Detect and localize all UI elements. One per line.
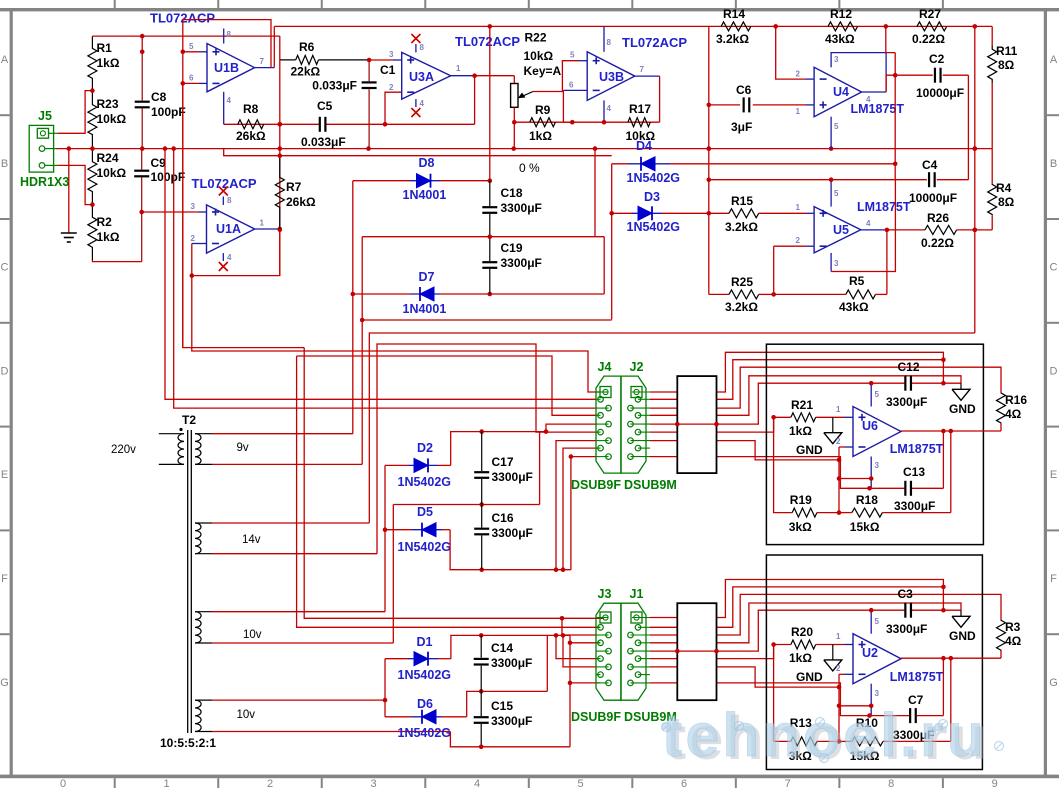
svg-text:R3: R3 — [1005, 620, 1021, 634]
svg-text:C19: C19 — [501, 241, 523, 255]
svg-text:3300μF: 3300μF — [894, 499, 935, 513]
svg-text:0.22Ω: 0.22Ω — [912, 32, 945, 46]
svg-text:1: 1 — [260, 219, 265, 228]
svg-text:1: 1 — [836, 632, 841, 641]
svg-text:8: 8 — [888, 778, 894, 788]
wire D1 cathode up to C14 line — [451, 635, 570, 658]
wire crossing lower ribbon block — [677, 650, 716, 652]
U1A pin8 X — [222, 197, 224, 205]
resistor R4 8ohm — [991, 149, 993, 184]
svg-text:A: A — [1050, 54, 1058, 66]
U4 pin3 loop — [831, 53, 886, 92]
svg-text:R12: R12 — [830, 7, 852, 21]
wire R10 right up to output — [950, 658, 952, 741]
wire x=296.6 J3 pin1 feed — [297, 356, 600, 627]
capacitor C18 3300uF — [489, 181, 491, 206]
svg-text:C17: C17 — [492, 455, 514, 469]
bottom rail y=746.8 — [450, 732, 570, 747]
resistor R27 0.22 — [917, 22, 947, 31]
wire U3A output to pot R22 — [475, 75, 515, 77]
svg-text:R6: R6 — [299, 40, 315, 54]
svg-text:0: 0 — [60, 778, 66, 788]
svg-text:C12: C12 — [898, 360, 920, 374]
svg-text:C: C — [1050, 262, 1058, 274]
wire rail1 to J4 pin1 via x=165 — [165, 149, 596, 400]
resistor R14 3.2k — [721, 22, 751, 31]
capacitor C14 3300uF — [480, 635, 482, 657]
svg-text:10kΩ: 10kΩ — [97, 166, 127, 180]
svg-text:14v: 14v — [242, 534, 261, 546]
resistor R10 15k — [839, 740, 852, 742]
svg-text:D6: D6 — [417, 697, 433, 711]
capacitor C5 0.033uF — [319, 117, 321, 132]
wire braid feed J3 pin5 — [554, 633, 559, 638]
svg-text:2: 2 — [267, 778, 273, 788]
svg-text:22kΩ: 22kΩ — [291, 65, 321, 79]
U3A pin4 X — [415, 99, 417, 107]
U1A pin1 output — [255, 228, 280, 230]
U5 pin1 input line — [709, 212, 729, 214]
U1B pin5 input — [183, 51, 199, 53]
svg-text:U1A: U1A — [216, 222, 241, 236]
svg-text:4: 4 — [607, 104, 612, 113]
diode D7 1N4001 — [353, 293, 410, 295]
diode D5 1N5402G — [385, 529, 412, 531]
svg-text:R17: R17 — [629, 102, 651, 116]
svg-text:GND: GND — [796, 443, 823, 457]
wire J1 sq to U2 box C3 node — [650, 580, 943, 618]
wire J5 pin3 to R24/R2 junction — [58, 165, 92, 204]
svg-text:8Ω: 8Ω — [998, 58, 1015, 72]
resistor R12 43k — [828, 22, 858, 31]
svg-text:2: 2 — [796, 70, 801, 79]
svg-text:D3: D3 — [644, 190, 660, 204]
svg-text:U3B: U3B — [599, 70, 624, 84]
ground symbol at J5 — [68, 149, 70, 233]
U1B pin7 output stub — [255, 67, 275, 69]
U1B pin8 stub — [223, 29, 225, 44]
GND symbol at U6 pin1 — [832, 417, 834, 432]
potentiometer R22 10k — [513, 76, 515, 84]
svg-text:3300μF: 3300μF — [886, 395, 927, 409]
svg-text:1N5402G: 1N5402G — [398, 540, 452, 554]
svg-text:8Ω: 8Ω — [998, 195, 1015, 209]
U4 pin2 input from R14/R12 node — [776, 26, 806, 79]
T2 secondary 14v — [195, 523, 201, 554]
center wire y=236.7 — [362, 236, 604, 238]
wire D2/D5 left column x=385 — [384, 465, 386, 611]
svg-text:3: 3 — [834, 55, 839, 64]
svg-text:TL072ACP: TL072ACP — [622, 35, 687, 50]
wire C5 right to U3A pin2 drop — [385, 92, 402, 124]
wire 10v1 bottom up to C16 top line — [392, 505, 394, 644]
svg-text:10v: 10v — [237, 709, 256, 721]
resistor R6 22k — [280, 59, 296, 61]
U6 output line — [901, 430, 1001, 432]
wire 9v bottom up to y=320 rail — [361, 237, 363, 465]
wire C16 mid line up to C17 rail — [539, 432, 541, 505]
svg-text:C16: C16 — [492, 511, 514, 525]
svg-text:DSUB9M: DSUB9M — [624, 478, 677, 492]
svg-text:U5: U5 — [833, 223, 849, 237]
capacitor C15 3300uF — [480, 691, 482, 716]
svg-text:C18: C18 — [501, 186, 523, 200]
svg-text:3: 3 — [834, 259, 839, 268]
14v top lead wire — [195, 522, 212, 524]
svg-text:8: 8 — [227, 30, 232, 39]
bridge U2 pin2 to pin3 col — [839, 705, 871, 707]
wire J1 pin3 to GND right lower — [650, 603, 961, 643]
capacitor C7 3300uF — [870, 715, 910, 717]
svg-text:1N5402G: 1N5402G — [627, 220, 681, 234]
svg-text:3kΩ: 3kΩ — [789, 520, 812, 534]
T2 secondary 10v lower — [195, 700, 201, 731]
svg-text:GND: GND — [949, 402, 976, 416]
svg-text:5: 5 — [834, 122, 839, 131]
svg-text:5: 5 — [570, 51, 575, 60]
U5 output — [861, 229, 887, 231]
svg-text:D: D — [1, 365, 9, 377]
svg-text:3300μF: 3300μF — [492, 470, 533, 484]
capacitor C6 3uF — [709, 104, 740, 106]
resistor R19 3k — [774, 417, 793, 512]
U6 pin3 stub — [870, 457, 872, 489]
wire braid feed J4 pin7 — [561, 567, 566, 572]
svg-text:U6: U6 — [862, 419, 878, 433]
U3B pin6 wire down to R9 line — [562, 90, 564, 122]
diode D8 1N4001 — [353, 180, 410, 182]
svg-text:R1: R1 — [97, 41, 113, 55]
wire J1 pin4 to U2 pin5 node — [650, 610, 871, 651]
svg-text:3.2kΩ: 3.2kΩ — [725, 220, 758, 234]
svg-text:R23: R23 — [97, 97, 119, 111]
svg-text:D: D — [1050, 365, 1058, 377]
svg-text:GND: GND — [949, 629, 976, 643]
svg-text:LM1875T: LM1875T — [890, 670, 944, 684]
capacitor C16 3300uF — [481, 505, 483, 528]
U6 pin2 column down to R19/R18 — [838, 447, 840, 513]
svg-text:Key=A: Key=A — [524, 64, 562, 78]
J4 left pin stubs — [596, 398, 601, 400]
svg-text:LM1875T: LM1875T — [890, 442, 944, 456]
svg-text:C5: C5 — [317, 99, 333, 113]
wire C13 right up to output — [942, 431, 944, 488]
svg-text:E: E — [1050, 469, 1057, 481]
U3B pin6 input — [563, 89, 587, 91]
svg-text:R25: R25 — [731, 275, 753, 289]
svg-text:26kΩ: 26kΩ — [236, 129, 266, 143]
U2 pin2 column down to R13/R10 — [838, 674, 840, 741]
U1B feedback wire top — [183, 20, 271, 68]
ribbon block J3/J1 — [677, 603, 716, 700]
svg-text:6: 6 — [569, 81, 574, 90]
wire C16 top line y=504.5 — [393, 504, 539, 506]
svg-text:4Ω: 4Ω — [1005, 634, 1022, 648]
T2 secondary 10v upper — [195, 612, 201, 643]
svg-text:R24: R24 — [97, 151, 119, 165]
svg-text:HDR1X3: HDR1X3 — [20, 175, 69, 189]
svg-text:3μF: 3μF — [731, 120, 752, 134]
svg-text:C14: C14 — [491, 641, 513, 655]
wire J2 pin3 to GND right — [650, 376, 961, 416]
svg-text:9v: 9v — [237, 442, 249, 454]
U5 pin3 loop to C4 line — [830, 253, 832, 272]
U3A pin8 X — [415, 44, 417, 52]
svg-text:4: 4 — [227, 253, 232, 262]
0% box verticals — [594, 149, 596, 237]
column x=708.8 from top rail — [708, 26, 710, 294]
capacitor C9 100pF — [141, 149, 143, 170]
svg-text:7: 7 — [640, 65, 645, 74]
T2 primary winding 220v — [178, 434, 184, 465]
svg-text:J1: J1 — [630, 587, 644, 601]
U2 output line — [901, 657, 1001, 659]
svg-text:GND: GND — [796, 670, 823, 684]
wire R18 right up to output — [950, 431, 952, 513]
J1 square pin stub — [632, 617, 650, 619]
svg-text:0 %: 0 % — [519, 161, 540, 175]
connector J2 DSUB9M — [621, 376, 646, 473]
svg-text:2: 2 — [191, 234, 196, 243]
wire D5 right down to C16 bottom line — [450, 530, 571, 570]
svg-text:1N4001: 1N4001 — [403, 188, 447, 202]
R6 left column to R8 and rails — [279, 60, 281, 276]
svg-text:10v: 10v — [243, 629, 262, 641]
svg-text:C: C — [1, 262, 9, 274]
svg-text:3.2kΩ: 3.2kΩ — [716, 32, 749, 46]
J2 right pin stubs — [638, 398, 650, 400]
svg-text:8: 8 — [420, 43, 425, 52]
wire R2 bottom to C9 column — [92, 260, 141, 262]
svg-text:G: G — [1049, 677, 1058, 689]
diode D3 1N5402G — [612, 212, 632, 214]
svg-text:C1: C1 — [380, 63, 396, 77]
svg-text:3300μF: 3300μF — [492, 526, 533, 540]
resistor R16 4ohm — [997, 393, 1006, 424]
U1B pin4 stub to R8 line — [223, 92, 225, 125]
svg-text:2: 2 — [796, 236, 801, 245]
wire D8-left down to 9v top tap — [352, 181, 354, 434]
GND symbol right of C12 — [960, 383, 962, 389]
wire 14v top to long y=335 rail — [369, 333, 975, 523]
diode D4 1N5402G — [641, 157, 655, 171]
svg-text:5: 5 — [875, 390, 880, 399]
svg-text:G: G — [0, 677, 9, 689]
svg-text:1N5402G: 1N5402G — [398, 475, 452, 489]
diode D6 1N5402G — [385, 716, 412, 718]
wire R8 net corner up to U3A output — [474, 76, 476, 125]
svg-text:2: 2 — [389, 83, 394, 92]
resistor R5 43k — [774, 293, 846, 295]
10v upper top lead wire — [195, 611, 212, 613]
wire R1 top feedback down to R6 left — [279, 36, 281, 60]
U5 pin5 stub up to C4 line — [830, 180, 832, 207]
resistor R8 26k — [238, 120, 264, 129]
10v lower top lead wire — [195, 699, 212, 701]
svg-text:U1B: U1B — [214, 61, 239, 75]
svg-text:3300μF: 3300μF — [491, 656, 532, 670]
svg-text:1: 1 — [796, 107, 801, 116]
svg-text:J4: J4 — [598, 360, 612, 374]
svg-text:1: 1 — [163, 778, 169, 788]
svg-text:0.033μF: 0.033μF — [301, 135, 346, 149]
svg-text:43kΩ: 43kΩ — [839, 300, 869, 314]
svg-text:LM1875T: LM1875T — [851, 102, 905, 116]
svg-text:1N4001: 1N4001 — [403, 302, 447, 316]
border frame — [0, 8, 1059, 11]
svg-text:C13: C13 — [903, 465, 925, 479]
diode D2 1N5402G — [385, 464, 408, 466]
resistor R25 3.2k — [709, 293, 729, 295]
wire R1 top to C8 top / U1B pin5 — [92, 35, 279, 37]
svg-text:1: 1 — [836, 405, 841, 414]
svg-text:3: 3 — [370, 778, 376, 788]
svg-text:C6: C6 — [736, 83, 752, 97]
GND symbol right of C3 — [960, 610, 962, 616]
wire bottom rail up to J3 pins — [569, 635, 571, 746]
U2 block box — [766, 555, 982, 770]
R8 line y=124.3 — [224, 123, 320, 125]
svg-text:7: 7 — [260, 57, 265, 66]
GND symbol at U2 pin1 — [832, 645, 834, 660]
svg-text:4: 4 — [866, 95, 871, 104]
capacitor C2 10000uF — [886, 74, 933, 76]
resistor R23 10k — [88, 91, 97, 149]
svg-text:10kΩ: 10kΩ — [524, 49, 554, 63]
wire R5 right up to output — [886, 230, 888, 295]
capacitor C12 3300uF — [871, 382, 904, 384]
wire braid feed J4 pin6 — [554, 567, 559, 572]
svg-text:TL072ACP: TL072ACP — [455, 34, 520, 49]
svg-text:1: 1 — [796, 203, 801, 212]
rail2 y=155.7 with jog from rail1 — [224, 149, 612, 156]
wire D2 cathode up to C17 line — [451, 432, 546, 466]
wire J5 pin1 to R1/R23 junction — [58, 91, 92, 134]
svg-text:4: 4 — [866, 219, 871, 228]
svg-text:10000μF: 10000μF — [916, 86, 964, 100]
U1B pin6 input — [183, 82, 199, 84]
U5 pin2 down to R25/R5 junction — [773, 246, 775, 294]
svg-text:26kΩ: 26kΩ — [286, 195, 316, 209]
svg-text:R16: R16 — [1005, 393, 1027, 407]
svg-text:1kΩ: 1kΩ — [97, 230, 120, 244]
svg-text:8: 8 — [607, 38, 612, 47]
wire J1 pin8 to U2 pin3/C7 node — [650, 683, 870, 716]
wire y=320 to D3/D4 vertical — [362, 319, 612, 321]
svg-text:3300μF: 3300μF — [886, 622, 927, 636]
svg-text:5: 5 — [875, 617, 880, 626]
resistor R15 3.2k — [729, 209, 759, 218]
svg-text:R2: R2 — [97, 215, 113, 229]
U3A pin1 output stub — [451, 75, 475, 77]
long top rail y=26.4 — [274, 25, 992, 27]
U1A feedback loop — [192, 229, 280, 276]
capacitor C3 3300uF — [871, 609, 904, 611]
svg-text:3: 3 — [875, 689, 880, 698]
svg-text:3: 3 — [875, 461, 880, 470]
svg-text:3300μF: 3300μF — [501, 256, 542, 270]
svg-text:1: 1 — [456, 64, 461, 73]
node rail1-J5gnd — [67, 146, 72, 151]
wire C2 right down to C4 — [967, 75, 969, 180]
U1B pin6 column down — [182, 52, 184, 84]
capacitor C4 10000uF — [709, 179, 927, 181]
wire wiper to U3B pin5 — [533, 61, 579, 92]
wire braid feed J3 pin6 — [561, 633, 566, 638]
svg-text:D4: D4 — [636, 139, 652, 153]
wire 14v bottom to J4 pin5 — [377, 344, 596, 554]
svg-text:R5: R5 — [849, 274, 865, 288]
wire C16 bottom rail up to J4 pin8 — [571, 457, 596, 570]
wire J2 pin8 to U6 pin3/C13 node — [650, 457, 870, 489]
watermark tehnoel.ru — [662, 701, 991, 772]
connector J4 DSUB9F — [596, 376, 621, 473]
U2 pin3 stub — [870, 684, 872, 716]
svg-text:R19: R19 — [790, 493, 812, 507]
svg-text:3: 3 — [191, 202, 196, 211]
svg-text:DSUB9F: DSUB9F — [571, 710, 621, 724]
svg-text:1N5402G: 1N5402G — [398, 726, 452, 740]
svg-text:R20: R20 — [791, 625, 813, 639]
bridge pin2 to pin3 col — [839, 478, 871, 480]
wire J2 pin5 to R21 line — [650, 417, 774, 432]
wire D6 right up to C14/C15 mid line — [467, 691, 548, 716]
svg-text:4Ω: 4Ω — [1005, 407, 1022, 421]
connector J1 DSUB9M — [621, 603, 646, 700]
svg-text:E: E — [1, 469, 8, 481]
svg-text:C15: C15 — [491, 699, 513, 713]
svg-text:U3A: U3A — [409, 70, 434, 84]
R9 R17 line y=122.2 — [514, 121, 659, 123]
wire crossing ribbon block — [677, 423, 716, 425]
svg-text:A: A — [1, 54, 9, 66]
wire D1/D6 left column x=385 — [384, 659, 386, 717]
wire J3 pin3 line — [570, 642, 600, 644]
capacitor C1 0.033uF — [368, 60, 370, 81]
svg-text:43kΩ: 43kΩ — [825, 32, 855, 46]
svg-text:R26: R26 — [927, 211, 949, 225]
U1A pin3 input — [142, 211, 199, 213]
capacitor C19 3300uF — [489, 237, 491, 261]
wire J2 pin4 to U6 pin5 node — [650, 383, 871, 424]
resistor R3 4ohm — [997, 620, 1006, 651]
capacitor C8 100pF — [141, 52, 143, 101]
svg-text:9: 9 — [992, 778, 998, 788]
wire J2 pin2 to R16 top — [650, 367, 1001, 408]
op-amp U5 LM1875T — [814, 207, 861, 253]
wire J1 pin2 to R3 top — [650, 594, 1001, 635]
svg-text:1kΩ: 1kΩ — [529, 129, 552, 143]
wire D4 line y=163.8 — [612, 163, 628, 165]
svg-text:7: 7 — [785, 778, 791, 788]
wire x=296.6 top to J4 pin3 — [297, 356, 596, 415]
U3B pin5 input — [579, 60, 587, 62]
capacitor C13 3300uF — [870, 487, 905, 489]
wire rail1 to J4 pin2 via x=173.7 — [174, 149, 596, 409]
svg-text:2: 2 — [836, 437, 841, 446]
resistor R17 10k — [628, 118, 650, 127]
svg-text:5: 5 — [189, 42, 194, 51]
svg-text:R8: R8 — [243, 102, 259, 116]
svg-text:10000μF: 10000μF — [909, 191, 957, 205]
U4 pin5 stub down to rail1 — [830, 117, 832, 149]
svg-text:R14: R14 — [723, 7, 745, 21]
wire U3B output down to R17 right — [659, 76, 661, 122]
svg-text:C8: C8 — [151, 90, 167, 104]
svg-text:R4: R4 — [996, 181, 1012, 195]
svg-text:15kΩ: 15kΩ — [850, 520, 880, 534]
wire x=304.2 to J3 square pin — [304, 348, 604, 619]
